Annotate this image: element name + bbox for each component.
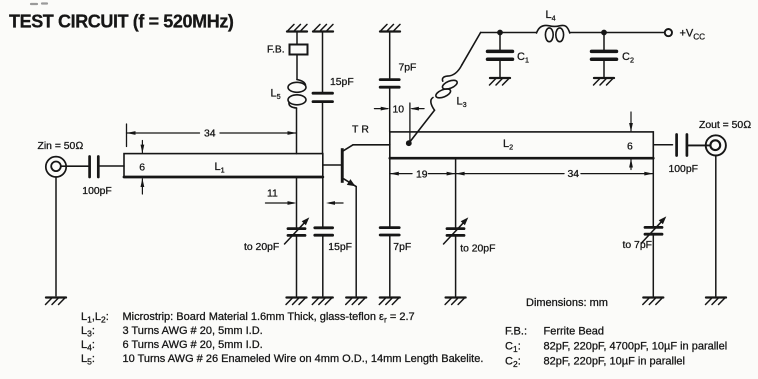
ground (C2) bbox=[594, 78, 615, 85]
svg-text:C2:: C2: bbox=[505, 356, 521, 370]
terminal +Vcc bbox=[665, 29, 672, 36]
svg-text:34: 34 bbox=[204, 129, 216, 140]
dimension 34 (L1) extension line bbox=[126, 124, 128, 147]
svg-text:6 Turns AWG # 20, 5mm I.D.: 6 Turns AWG # 20, 5mm I.D. bbox=[123, 339, 263, 351]
inductor L3 bbox=[409, 33, 481, 144]
svg-text:82pF, 220pF, 10µF in parallel: 82pF, 220pF, 10µF in parallel bbox=[544, 356, 685, 368]
dimension 10 extension line bbox=[409, 103, 411, 141]
svg-text:Zout = 50Ω: Zout = 50Ω bbox=[699, 120, 751, 131]
wire L5 to L1 tap bbox=[296, 108, 298, 154]
wire emitter to ground bbox=[355, 187, 357, 296]
wire top ground to 15pF bbox=[322, 32, 324, 92]
trimmer capacitor to 20pF (no.2) bbox=[444, 217, 469, 244]
wire output cap to connector bbox=[688, 144, 710, 146]
inductor L4 bbox=[537, 25, 570, 41]
dimension 34 (L1) bbox=[127, 129, 297, 140]
dimension 19-34 (L2) bbox=[390, 169, 654, 181]
svg-text:10 Turns AWG # 26 Enameled Wir: 10 Turns AWG # 26 Enameled Wire on 4mm O… bbox=[123, 353, 484, 365]
microstrip L1 thick bottom edge bbox=[124, 176, 323, 179]
node C2 junction bbox=[601, 30, 607, 36]
ground (C1) bbox=[490, 78, 511, 85]
wire output connector to ground bbox=[715, 156, 717, 297]
wire C1 to ground bbox=[499, 61, 501, 78]
wire L2 right edge to output cap bbox=[653, 144, 672, 146]
svg-text:Dimensions: mm: Dimensions: mm bbox=[526, 297, 608, 309]
wire rail L3 to L4 bbox=[481, 32, 537, 34]
node C1 junction bbox=[497, 30, 503, 36]
width arrow below L2 bbox=[629, 159, 633, 170]
wire F.B. to L5 bbox=[296, 55, 298, 80]
ground (top, 7pF chain) bbox=[380, 24, 400, 31]
ground (7pF bottom) bbox=[379, 298, 400, 305]
svg-text:L4:: L4: bbox=[81, 339, 95, 353]
svg-text:Microstrip: Board Material 1.6: Microstrip: Board Material 1.6mm Thick, … bbox=[123, 311, 415, 325]
svg-text:C1: C1 bbox=[517, 51, 529, 65]
wire collector to L2 bbox=[353, 144, 390, 146]
svg-text:82pF, 220pF, 4700pF, 10µF in p: 82pF, 220pF, 4700pF, 10µF in parallel bbox=[544, 341, 728, 353]
wire 7pF to L2 corner bbox=[389, 89, 391, 132]
wire L1 right edge down to 15pF bottom bbox=[322, 177, 324, 226]
connector J2 (output coax) bbox=[706, 135, 726, 155]
svg-text:7pF: 7pF bbox=[399, 63, 417, 74]
capacitor 15pF (bottom) bbox=[315, 228, 333, 235]
width arrow below L1 bbox=[141, 178, 145, 194]
capacitor 15pF (top) bbox=[313, 93, 333, 101]
microstrip L2 bbox=[390, 132, 654, 158]
width arrow above L2 bbox=[629, 112, 633, 132]
svg-text:100pF: 100pF bbox=[669, 164, 698, 175]
wire to-7pF trimmer to ground bbox=[652, 236, 654, 296]
dimension 10 bbox=[375, 104, 425, 115]
wire C-in to L1 bbox=[100, 165, 124, 167]
wire rail L4 to Vcc bbox=[570, 32, 665, 34]
wire C2 drop bbox=[603, 33, 605, 50]
svg-text:11: 11 bbox=[267, 189, 278, 200]
svg-text:Zin = 50Ω: Zin = 50Ω bbox=[38, 141, 84, 152]
svg-text:to 20pF: to 20pF bbox=[244, 242, 279, 253]
wire L2 right edge down to to-7pF trimmer bbox=[652, 158, 654, 226]
svg-text:L5:: L5: bbox=[81, 353, 95, 367]
svg-text:6: 6 bbox=[139, 163, 145, 174]
node tap on L2 bbox=[406, 140, 412, 146]
wire trimmer no.2 to ground bbox=[455, 237, 457, 296]
ground (emitter) bbox=[346, 298, 367, 305]
wire L2 down to trimmer no.2 bbox=[455, 158, 457, 227]
capacitor 100pF (input) bbox=[90, 157, 99, 178]
svg-text:C2: C2 bbox=[622, 51, 634, 65]
svg-text:15pF: 15pF bbox=[328, 242, 352, 253]
wire input connector to ground bbox=[55, 177, 57, 296]
ground (15pF bottom) bbox=[312, 298, 333, 305]
inductor L5 bbox=[288, 80, 306, 109]
wire 15pF bottom to ground bbox=[322, 237, 324, 296]
capacitor 7pF (bottom) bbox=[380, 228, 399, 235]
svg-text:F.B.: F.B. bbox=[267, 45, 285, 56]
svg-text:L1,L2:: L1,L2: bbox=[81, 311, 109, 325]
ground (output connector) bbox=[706, 298, 727, 305]
width arrow above L1 bbox=[141, 141, 145, 154]
wire C1 drop bbox=[499, 33, 501, 50]
trimmer capacitor to 7pF bbox=[642, 216, 667, 243]
wire top ground to 7pF bbox=[389, 32, 391, 79]
svg-text:+VCC: +VCC bbox=[680, 28, 706, 42]
svg-text:C1:: C1: bbox=[505, 341, 521, 355]
ground (to 20pF no.1) bbox=[286, 298, 307, 305]
wire base lead bbox=[323, 164, 341, 166]
svg-text:TR: TR bbox=[352, 124, 372, 135]
svg-text:Ferrite Bead: Ferrite Bead bbox=[544, 326, 605, 338]
svg-text:15pF: 15pF bbox=[330, 77, 354, 88]
ground (top, F.B. chain) bbox=[287, 24, 307, 31]
wire C2 to ground bbox=[603, 61, 605, 78]
wire trimmer to ground bbox=[296, 237, 298, 296]
ferrite bead F.B. bbox=[290, 45, 308, 55]
microstrip L1 bbox=[124, 154, 323, 177]
ground (top, 15pF chain) bbox=[313, 24, 333, 31]
capacitor C1 bbox=[488, 51, 513, 59]
svg-text:L2: L2 bbox=[503, 138, 513, 152]
trimmer capacitor to 20pF (no.1) bbox=[285, 217, 310, 244]
capacitor 100pF (output) bbox=[677, 135, 687, 156]
svg-text:7pF: 7pF bbox=[393, 242, 411, 253]
wire L2 left edge down to 7pF bottom bbox=[389, 158, 391, 226]
wire 7pF bottom to ground bbox=[389, 236, 391, 296]
dimension 11 bbox=[266, 189, 344, 205]
svg-text:19: 19 bbox=[416, 170, 428, 181]
svg-text:L3:: L3: bbox=[81, 325, 95, 339]
ground (to 7pF) bbox=[643, 298, 664, 305]
svg-text:3 Turns AWG # 20, 5mm I.D.: 3 Turns AWG # 20, 5mm I.D. bbox=[123, 325, 263, 337]
svg-text:TEST CIRCUIT (f = 520MHz): TEST CIRCUIT (f = 520MHz) bbox=[9, 12, 234, 32]
svg-text:34: 34 bbox=[568, 169, 580, 180]
capacitor C2 bbox=[592, 51, 617, 59]
wire input connector to C-in bbox=[61, 165, 88, 167]
svg-text:F.B.:: F.B.: bbox=[505, 326, 527, 338]
transistor TR bbox=[341, 145, 356, 187]
svg-text:L5: L5 bbox=[271, 88, 281, 102]
svg-text:100pF: 100pF bbox=[82, 186, 111, 197]
wire L1 tap down to trimmer bbox=[296, 177, 298, 227]
svg-text:L3: L3 bbox=[457, 96, 467, 110]
svg-text:to 20pF: to 20pF bbox=[460, 244, 495, 255]
svg-text:6: 6 bbox=[627, 142, 633, 153]
svg-text:L1: L1 bbox=[215, 161, 225, 175]
wire top ground to F.B. bbox=[296, 32, 298, 45]
capacitor 7pF (top) bbox=[380, 80, 399, 88]
connector J1 (input coax) bbox=[46, 157, 66, 177]
svg-text:to 7pF: to 7pF bbox=[623, 240, 652, 251]
ground (input connector) bbox=[46, 298, 67, 305]
ground (to 20pF no.2) bbox=[445, 298, 466, 305]
wire 15pF to L1 corner bbox=[322, 103, 324, 154]
svg-text:L4: L4 bbox=[546, 9, 556, 23]
microstrip L2 thick bottom edge bbox=[390, 157, 654, 160]
svg-text:10: 10 bbox=[393, 104, 405, 115]
